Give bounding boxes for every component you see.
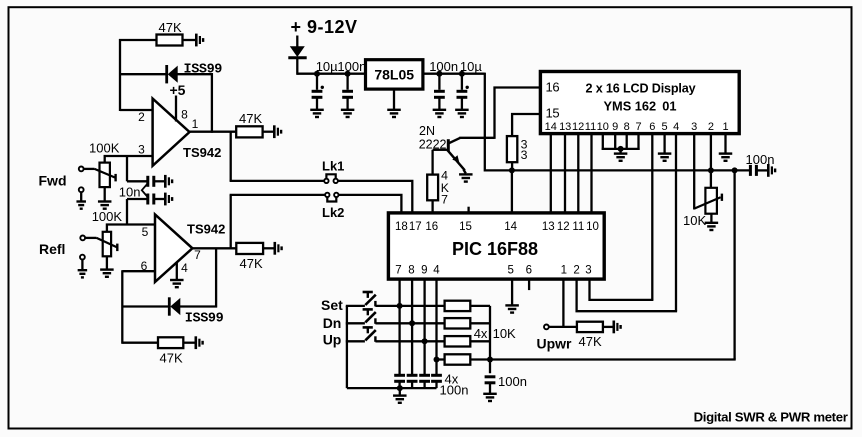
wire LCD pin9 stub (614, 134, 616, 150)
svg-text:15: 15 (459, 221, 472, 233)
svg-text:10µ: 10µ (316, 59, 338, 74)
wire op1 diode row (119, 73, 213, 75)
wire op1 pin8 +5 stub (175, 96, 177, 122)
node dot 33R junction (509, 167, 515, 173)
capacitor 10n lower (148, 194, 165, 205)
wire right vertical +5 down (733, 170, 735, 359)
wire LCD pin16 to Q1 collector (495, 88, 542, 139)
wire 10K pot to ground (710, 214, 712, 223)
wire row4 to +5 right (470, 358, 735, 360)
svg-text:Upwr: Upwr (537, 335, 573, 351)
label ISS99 D2 (185, 311, 224, 326)
svg-text:4x: 4x (474, 326, 488, 341)
ground 100n input (341, 110, 355, 117)
node dot LCD pin2 +5 (708, 167, 714, 173)
label 2222 (419, 137, 447, 151)
wire op2 47K feedback row (122, 342, 158, 344)
node dot 10u out (459, 71, 465, 77)
wire base row (433, 149, 449, 151)
svg-text:7: 7 (635, 121, 641, 133)
wire 10u out stub (461, 74, 463, 90)
svg-text:5: 5 (662, 121, 668, 133)
ground mini after 47K op1 feedback (196, 34, 203, 47)
node dot Set pin7 (397, 303, 403, 309)
wire D1 to op1 output vertical (211, 73, 213, 133)
wire collector to pin16 line (459, 137, 494, 139)
capacitor 100n pullup bus (485, 377, 496, 383)
wire Lk1 row right to PIC pin17 (338, 181, 412, 214)
diode supply series (288, 46, 306, 58)
wire Fwd pot to ground (104, 187, 106, 201)
ground 10u output (455, 110, 469, 117)
svg-text:2: 2 (573, 264, 579, 276)
resistor 4K7 base (427, 150, 438, 214)
wire PIC pin1 down (562, 279, 564, 327)
svg-text:16: 16 (425, 221, 438, 233)
diode ISS99 D1 (167, 65, 178, 83)
label pin 6 op2 (141, 259, 148, 273)
svg-text:78L05: 78L05 (374, 67, 414, 83)
capacitor 100n btn2 (407, 375, 418, 388)
ground Fwd input (76, 202, 86, 209)
wire op1 output to Lk1 vertical (230, 132, 232, 181)
wire 78L05 ground (393, 89, 395, 110)
ground mini after op1 output 47K (274, 125, 281, 138)
label PIC 16F88 (452, 239, 538, 259)
label 100K Fwd pot (89, 141, 120, 156)
svg-text:12: 12 (557, 221, 570, 233)
ground 100n pull-up bus (483, 394, 497, 401)
wire op1 output row (189, 131, 237, 133)
ground mini 10n upper (165, 175, 172, 188)
svg-text:100n: 100n (429, 59, 458, 74)
svg-text:100n: 100n (498, 374, 527, 389)
label + 9-12V (291, 17, 358, 37)
wire PIC pin2 to LCD pin4 (577, 279, 678, 311)
potentiometer 100K Fwd (100, 163, 110, 188)
svg-text:14: 14 (504, 221, 517, 233)
ground mini 100n LCD (768, 164, 775, 177)
capacitor 100n btn1 (394, 375, 405, 388)
wire Lk2 vertical from op2 (230, 195, 232, 249)
svg-text:Up: Up (323, 331, 342, 347)
jumper Lk2 (325, 193, 338, 202)
svg-text:YMS 162 01: YMS 162 01 (604, 99, 677, 114)
capacitor 100n input (342, 91, 353, 97)
label Refl (39, 241, 65, 257)
svg-text:4: 4 (673, 121, 679, 133)
svg-text:100n: 100n (337, 59, 366, 74)
wire op2 output row (192, 247, 237, 249)
label 100n input (337, 59, 366, 74)
resistor 47K op1 feedback to ground (157, 35, 197, 46)
node dot pin4 row (434, 357, 440, 363)
switch Dn (363, 309, 376, 323)
svg-text:47K: 47K (579, 334, 602, 349)
svg-text:8: 8 (624, 121, 630, 133)
ground emitter Q1 (459, 174, 473, 181)
svg-text:10K: 10K (683, 213, 706, 228)
wire 100n bus to ground (489, 383, 491, 394)
wire LCD pin8 stub (626, 134, 628, 150)
node dot 100n out (436, 71, 442, 77)
node dot LCD ground bracket (618, 146, 624, 152)
wire PIC pin3 to LCD pin6 (590, 279, 654, 300)
label Up (323, 331, 342, 347)
ground Refl pot (100, 270, 114, 277)
label Lk1 (322, 159, 344, 174)
wire LCD pin1 stub (724, 134, 726, 154)
node dot Up pin9 (422, 338, 428, 344)
svg-text:ISS99: ISS99 (185, 311, 224, 326)
label LCD title (586, 82, 696, 96)
label 47K op2 output (240, 256, 263, 271)
node dot buttons ground (397, 385, 403, 391)
svg-text:1: 1 (192, 117, 199, 131)
wire op1 pin2 input (120, 109, 153, 111)
svg-text:2N: 2N (419, 124, 435, 138)
regulator 78L05 U2 (366, 60, 423, 89)
wire Fwd input to pot wiper (84, 168, 95, 170)
node junction Fwd row (126, 155, 128, 157)
wire supply rail right (423, 73, 485, 75)
terminal circle Upwr (544, 325, 549, 330)
svg-text:100n: 100n (440, 383, 469, 398)
wire Dn row right (375, 322, 445, 324)
svg-text:6: 6 (649, 121, 655, 133)
resistor 47K op2 to ground (158, 337, 196, 348)
ground 78L05 (387, 110, 401, 117)
wire Lk2 row right to PIC pin18 (339, 195, 402, 214)
label pin 8 op1 (181, 108, 188, 122)
wire Up row right (375, 340, 445, 342)
switch Set (363, 292, 376, 306)
diode ISS99 D2 (169, 297, 180, 315)
ground 100n output (433, 110, 447, 117)
node dot 10u in (314, 71, 320, 77)
svg-text:Dn: Dn (323, 315, 342, 331)
svg-text:6: 6 (526, 264, 532, 276)
wire LCD pin3 down (693, 134, 695, 210)
svg-text:15: 15 (546, 106, 560, 121)
label Dn (323, 315, 342, 331)
svg-text:47K: 47K (239, 111, 262, 126)
caption Digital SWR & PWR meter (694, 409, 848, 424)
svg-text:3: 3 (521, 148, 528, 162)
wire LCD12 to PIC11 (577, 134, 579, 214)
svg-text:47K: 47K (160, 350, 183, 365)
svg-text:+5: +5 (170, 82, 186, 98)
label Upwr (537, 335, 573, 351)
wire +5 bus (485, 169, 751, 171)
wire LCD pin4 down (675, 134, 677, 312)
svg-text:16: 16 (546, 79, 560, 94)
wire op1 feedback top row (119, 39, 157, 41)
label 10n (119, 184, 141, 199)
svg-text:47K: 47K (240, 256, 263, 271)
label 47K op1 feedback (159, 20, 182, 35)
svg-text:10µ: 10µ (460, 59, 482, 74)
svg-text:2 x 16 LCD Display: 2 x 16 LCD Display (586, 82, 696, 96)
resistor 10K pull-up 2 (445, 318, 490, 328)
svg-text:TS942: TS942 (187, 221, 225, 236)
wire 10u in to ground (316, 97, 318, 109)
label 10K contrast (683, 213, 706, 228)
capacitor 100n btn4 (431, 375, 442, 388)
wire op2 pin4 stub (176, 262, 178, 280)
resistor 47K op1 output load (236, 126, 274, 137)
wire row4 left (437, 358, 446, 360)
label pin 1 op1 (192, 117, 199, 131)
svg-text:+ 9-12V: + 9-12V (291, 17, 358, 37)
terminal circle Fwd ground side (79, 187, 84, 192)
label 47K op1 output (239, 111, 262, 126)
wire bracket to ground (619, 149, 621, 154)
svg-text:TS942: TS942 (183, 145, 221, 160)
svg-text:8: 8 (181, 108, 188, 122)
wire supply input (296, 36, 298, 47)
svg-text:5: 5 (507, 264, 513, 276)
label LCD pin 15 (546, 106, 560, 121)
svg-text:7: 7 (194, 248, 201, 262)
capacitor 100n LCD supply (750, 165, 768, 176)
capacitor 10u input (312, 86, 324, 98)
wire Refl pot top row to pin5 (107, 225, 156, 233)
wire LCD pins10-7 bracket (602, 148, 640, 150)
svg-text:10K: 10K (493, 326, 516, 341)
svg-text:PIC 16F88: PIC 16F88 (452, 239, 538, 259)
wire LCD13 to PIC12 (564, 134, 566, 214)
svg-text:47K: 47K (159, 20, 182, 35)
wire Refl circle to ground (81, 260, 83, 271)
label LCD pin 16 (546, 79, 560, 94)
wire 10u out to ground (461, 97, 463, 109)
ground LCD pins 10-7 (614, 154, 628, 161)
svg-text:Lk1: Lk1 (322, 159, 344, 174)
capacitor 10n upper (148, 176, 165, 187)
ground buttons (393, 396, 407, 403)
wire pull-up bus vertical (489, 306, 491, 373)
svg-text:10n: 10n (119, 184, 141, 199)
wire Set row right (375, 305, 445, 307)
ground 10K pot (705, 223, 719, 230)
labels PIC bottom pins (395, 264, 591, 276)
bracket 10n pair (142, 183, 149, 199)
wire 10u in stub (316, 74, 318, 90)
label TS942 U1A (183, 145, 221, 160)
svg-text:100n: 100n (746, 152, 775, 167)
ground PIC pin5 (505, 305, 518, 312)
wire Up row left (346, 340, 365, 342)
wire PIC pin7 column (398, 279, 400, 374)
wire +5 vertical right (484, 73, 486, 172)
potentiometer 100K Refl (103, 232, 111, 256)
svg-text:2: 2 (138, 110, 145, 124)
resistor 10K pull-up 1 (445, 301, 490, 311)
wire PIC pin14 +5 (511, 170, 513, 213)
label 100n caps (440, 383, 469, 398)
svg-text:Refl: Refl (39, 241, 65, 257)
wire Fwd circle to ground (80, 192, 82, 201)
svg-text:11: 11 (572, 221, 584, 233)
wire Refl input to pot wiper (85, 237, 96, 239)
resistor 10K pull-up 4 (445, 354, 471, 364)
resistor 33R backlight (507, 136, 517, 171)
wire op1 feedback vertical (119, 39, 121, 111)
label 47K Upwr (579, 334, 602, 349)
svg-text:18: 18 (395, 221, 408, 233)
label 100n output (429, 59, 458, 74)
display module 2x16 LCD (540, 72, 739, 134)
node dot Dn pin8 (409, 320, 415, 326)
ground op2 pin4 (170, 280, 184, 287)
wire 100n in to ground (346, 97, 348, 109)
svg-text:9: 9 (612, 121, 618, 133)
node dot 100n in (345, 71, 351, 77)
wire LCD pin7 stub (637, 134, 639, 150)
wire LCD pin6 down (651, 134, 653, 300)
label pin 5 op2 (142, 225, 149, 239)
label LCD type YMS 162 01 (604, 99, 677, 114)
label 10u input (316, 59, 338, 74)
svg-text:3: 3 (585, 264, 591, 276)
resistor 47K Upwr (577, 322, 614, 332)
svg-text:12: 12 (572, 121, 584, 133)
wire op2 pin6 input (122, 270, 155, 272)
wire to capacitor 10n upper (127, 180, 148, 182)
capacitor 100n output (434, 91, 445, 97)
svg-text:2: 2 (708, 121, 714, 133)
pot 10K wiper arm (694, 194, 722, 209)
svg-text:Fwd: Fwd (39, 173, 67, 189)
svg-text:ISS99: ISS99 (184, 62, 223, 77)
svg-text:8: 8 (408, 264, 414, 276)
label 4x caps (445, 371, 459, 386)
wire LCD pin5 stub (663, 134, 665, 154)
jumper Lk1 (324, 174, 338, 183)
svg-text:1: 1 (561, 264, 567, 276)
ground mini after op2 output 47K (275, 242, 282, 255)
label +5 supply (170, 82, 186, 98)
ground LCD pin1 (719, 154, 733, 161)
svg-text:17: 17 (409, 221, 422, 233)
wire Upwr row (549, 326, 578, 328)
label Lk2 (322, 205, 344, 220)
label 10K pullups (493, 326, 516, 341)
op-amp U1A TS942 triangle (153, 99, 190, 166)
wire to buttons ground (399, 388, 401, 395)
label 33 ohm (521, 138, 528, 163)
wire op2 output to D2 vertical (215, 248, 217, 307)
svg-text:7: 7 (395, 264, 401, 276)
wire LCD pin2 stub (710, 134, 712, 171)
switch Up (363, 327, 376, 341)
label TS942 U1B (187, 221, 225, 236)
svg-text:5: 5 (142, 225, 149, 239)
pot Refl wiper arm (97, 238, 118, 251)
wire pin3 node down to C-10n-1 (126, 155, 128, 181)
capacitor 100n btn3 (419, 375, 430, 388)
terminal circle Refl input (80, 236, 85, 241)
node dot pull-up bus (487, 357, 493, 363)
ground Fwd pot (98, 202, 112, 209)
ground mini 10n lower (165, 193, 172, 206)
wire PIC pin15 NC stub (467, 207, 469, 214)
svg-text:3: 3 (691, 121, 697, 133)
wire Set row left (346, 305, 365, 307)
wire to capacitor 10n lower (127, 198, 148, 200)
wire Refl pot to ground (106, 256, 108, 269)
wire LCD11 to PIC10 (590, 134, 592, 214)
ground Refl input (78, 270, 88, 277)
ground mini Upwr 47K (614, 321, 621, 334)
wire LCD pin15 to 33R (512, 114, 541, 137)
svg-text:7: 7 (441, 192, 448, 206)
op-amp U1B TS942 triangle (155, 214, 192, 282)
wire buttons common vertical (346, 306, 348, 388)
wire buttons ground line (347, 387, 437, 389)
svg-text:4: 4 (433, 264, 440, 276)
wire supply rail left (297, 73, 366, 75)
terminal circle Fwd input (79, 167, 84, 172)
svg-text:9: 9 (421, 264, 427, 276)
wire Fwd pot top row to pin3 (105, 156, 153, 164)
potentiometer 10K contrast (705, 170, 717, 213)
ground LCD pin5 (658, 154, 672, 161)
wire pin5 node vertical (126, 199, 128, 225)
label pin 7 op2 (194, 248, 201, 262)
svg-text:13: 13 (559, 121, 571, 133)
svg-text:14: 14 (545, 121, 557, 133)
wire 100n out stub (438, 74, 440, 90)
terminal circle Refl ground side (80, 255, 85, 260)
label 47K op2 lower (160, 350, 183, 365)
wire diode to rail (296, 57, 298, 74)
wire emitter to ground (464, 170, 466, 174)
svg-text:10: 10 (586, 221, 599, 233)
wire LCD pin10 stub (602, 134, 604, 150)
wire op2 left vertical (121, 270, 123, 344)
svg-text:Set: Set (321, 297, 343, 313)
label 4K7 (441, 169, 450, 207)
label Set (321, 297, 343, 313)
wire op2 diode row (122, 305, 217, 307)
label Fwd (39, 173, 67, 189)
ground mini after op2 47K (196, 336, 203, 349)
wire Dn row left (346, 322, 365, 324)
pot Fwd wiper arm (95, 169, 116, 182)
label pin 3 op1 (138, 143, 145, 157)
wire PIC pin5 ground (511, 279, 513, 305)
wire PIC pin4 column (435, 279, 437, 374)
resistor 10K pull-up 3 (445, 336, 490, 346)
svg-text:1: 1 (722, 121, 728, 133)
label 100K Refl pot (92, 209, 123, 224)
wire LCD14 to PIC13 (550, 134, 552, 214)
label 10u output (460, 59, 482, 74)
svg-text:4: 4 (181, 261, 188, 275)
label 4x pullups (474, 326, 488, 341)
wire Lk2 row left (230, 194, 326, 196)
labels PIC top pins (395, 221, 599, 233)
wire Lk1 row left (230, 180, 325, 182)
ground 10u input (310, 110, 324, 117)
wire 100n in stub (346, 74, 348, 90)
svg-text:10: 10 (597, 121, 609, 133)
svg-text:13: 13 (542, 221, 555, 233)
label pin 4 op2 (181, 261, 188, 275)
label ISS99 D1 (184, 62, 223, 77)
